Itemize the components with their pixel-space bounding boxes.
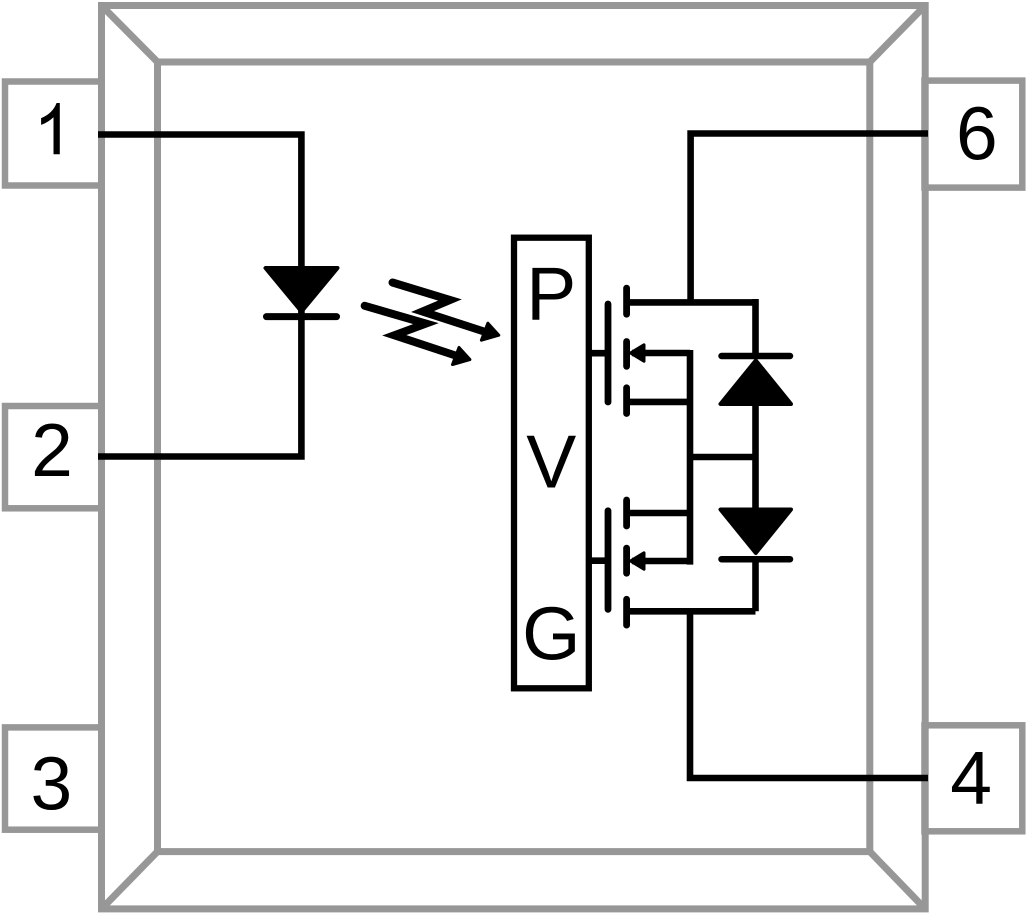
svg-text:V: V	[526, 420, 576, 504]
svg-text:2: 2	[31, 408, 73, 492]
svg-text:4: 4	[950, 735, 992, 819]
svg-text:3: 3	[30, 741, 72, 825]
svg-text:6: 6	[956, 91, 998, 175]
svg-text:P: P	[526, 251, 576, 335]
svg-text:G: G	[522, 592, 580, 676]
